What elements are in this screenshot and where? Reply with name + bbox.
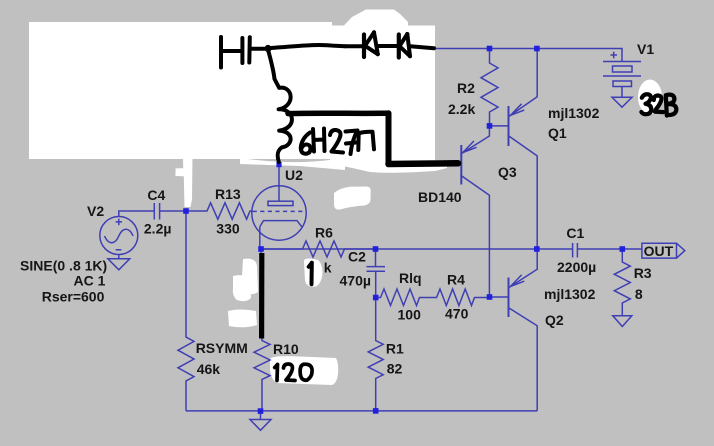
svg-text:82: 82	[387, 361, 403, 377]
svg-text:OUT: OUT	[644, 243, 674, 259]
svg-text:330: 330	[216, 221, 240, 237]
svg-text:Q2: Q2	[545, 312, 564, 328]
svg-text:RSYMM: RSYMM	[196, 340, 248, 356]
svg-text:2200µ: 2200µ	[557, 259, 596, 275]
svg-text:R4: R4	[447, 271, 465, 287]
svg-text:mjl1302: mjl1302	[548, 105, 600, 121]
svg-text:470: 470	[445, 305, 469, 321]
svg-text:V2: V2	[87, 203, 104, 219]
svg-text:SINE(0 .8 1K): SINE(0 .8 1K)	[20, 258, 107, 274]
svg-text:U2: U2	[285, 167, 303, 183]
svg-text:R3: R3	[634, 265, 652, 281]
svg-text:BD140: BD140	[418, 189, 462, 205]
svg-text:AC 1: AC 1	[73, 273, 105, 289]
svg-text:R6: R6	[315, 225, 333, 241]
svg-text:2.2k: 2.2k	[448, 101, 475, 117]
svg-text:R10: R10	[273, 341, 299, 357]
svg-text:C2: C2	[348, 249, 366, 265]
svg-text:C4: C4	[147, 187, 165, 203]
svg-text:k: k	[324, 259, 332, 275]
svg-text:8: 8	[635, 286, 643, 302]
svg-text:C1: C1	[566, 225, 584, 241]
svg-text:2.2µ: 2.2µ	[144, 221, 172, 237]
svg-text:R13: R13	[215, 186, 241, 202]
svg-text:R2: R2	[457, 80, 475, 96]
svg-text:mjl1302: mjl1302	[544, 286, 596, 302]
svg-text:V1: V1	[637, 41, 654, 57]
svg-text:Q3: Q3	[498, 164, 517, 180]
svg-text:Rser=600: Rser=600	[42, 288, 105, 304]
svg-text:46k: 46k	[197, 361, 221, 377]
svg-text:470µ: 470µ	[340, 273, 371, 289]
svg-text:Rlq: Rlq	[399, 270, 422, 286]
svg-text:Q1: Q1	[548, 125, 567, 141]
svg-text:R1: R1	[386, 341, 404, 357]
svg-text:100: 100	[398, 306, 422, 322]
